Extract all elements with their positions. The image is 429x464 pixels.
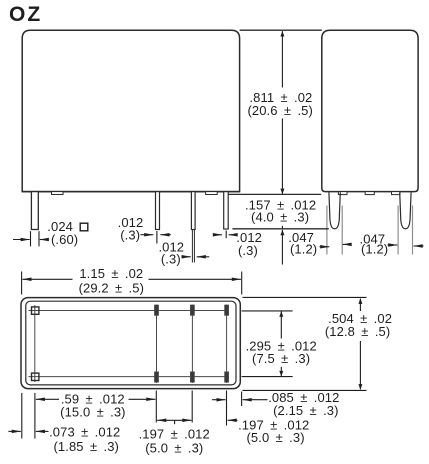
dimension .012 pin4 arrows: [213, 234, 222, 236]
front pin 4: [224, 192, 229, 229]
dimension .157 lower arrow: [281, 230, 283, 265]
svg-text:(5.0 ± .3): (5.0 ± .3): [247, 430, 305, 445]
front view bottom edge: [22, 191, 239, 193]
dimension .012 pin3 arrows: [182, 256, 191, 258]
bottom view inner outline: [26, 301, 236, 385]
front pin 1: [31, 192, 38, 230]
svg-text:(5.0 ± .3): (5.0 ± .3): [145, 440, 203, 455]
bottom view pin mark col3 bottom: [225, 372, 229, 383]
dimension .047 left pin arrow right: [343, 243, 351, 245]
extension line pin col2: [191, 391, 193, 423]
square symbol: [80, 223, 88, 231]
dimension .157 line stub above reference line: [281, 226, 283, 229]
front view tab left: [52, 192, 64, 195]
bottom view square pad top: [32, 307, 39, 314]
front pin 3: [191, 192, 195, 230]
svg-text:(.60): (.60): [51, 232, 78, 247]
side pin right: [400, 192, 411, 229]
svg-text:1.15 ± .02: 1.15 ± .02: [79, 266, 143, 281]
bottom view square pad bottom: [32, 373, 39, 380]
bottom view centerline column 2: [191, 305, 193, 384]
svg-text:(.3): (.3): [161, 252, 181, 267]
svg-text:.073 ± .012: .073 ± .012: [49, 425, 120, 440]
bottom view centerline left column: [34, 305, 36, 382]
svg-text:OZ: OZ: [9, 3, 42, 26]
dimension .012 pin4 tick: [225, 231, 227, 239]
front view tab right: [206, 192, 218, 195]
dimension .811 vertical line upper: [281, 31, 283, 87]
pin bottom reference line: [232, 228, 328, 230]
svg-text:(15.0 ± .3): (15.0 ± .3): [60, 404, 125, 419]
side pin left: [329, 192, 340, 229]
side view body: [322, 30, 418, 191]
dimension .073 left arrow: [8, 430, 20, 432]
svg-text:(1.2): (1.2): [290, 241, 317, 256]
extension line right edge: [241, 392, 243, 407]
dimension .811 vertical line lower: [281, 119, 283, 194]
svg-text:(20.6 ± .5): (20.6 ± .5): [247, 103, 312, 118]
dimension .197 left pair arrows: [157, 419, 191, 421]
dimension .504 extension top: [243, 296, 367, 298]
dimension .197 left leader stub: [174, 420, 176, 424]
bottom view pin mark col2 bottom: [190, 372, 194, 383]
bottom view outer outline: [21, 298, 240, 389]
dimension .012 pin2 tick: [156, 231, 158, 244]
bottom view pin mark col2 top: [190, 305, 194, 316]
svg-text:(1.85 ± .3): (1.85 ± .3): [54, 439, 119, 454]
svg-text:(2.15 ± .3): (2.15 ± .3): [273, 403, 338, 418]
dimension .085 left arrow: [212, 399, 226, 401]
svg-text:(.3): (.3): [238, 243, 258, 258]
side pin left extension lines: [326, 206, 328, 255]
bottom view centerline column 3: [226, 305, 228, 384]
side view tab 2: [365, 192, 374, 195]
dimension .085 right arrow: [243, 399, 268, 401]
front view body: [22, 30, 239, 191]
dimension .012 pin2 arrows: [141, 234, 154, 236]
bottom view centerline column 1: [156, 305, 158, 384]
dimension .295 extension bottom: [242, 376, 293, 378]
bottom view pin mark col1 bottom: [154, 372, 158, 383]
side pin right extension lines: [397, 206, 399, 255]
bottom view centerline top row: [29, 310, 228, 312]
top connector line between views: [240, 29, 322, 31]
dimension 1.15 tick right: [241, 272, 243, 295]
svg-text:(29.2 ± .5): (29.2 ± .5): [79, 280, 144, 295]
extension line left edge: [21, 393, 23, 439]
dimension .047 left arrow: [320, 246, 330, 248]
extension line square column: [34, 393, 36, 439]
bottom connector line between views: [228, 193, 321, 195]
dimension .295 extension top: [242, 310, 293, 312]
svg-text:(4.0 ± .3): (4.0 ± .3): [251, 210, 309, 225]
svg-text:.197 ± .012: .197 ± .012: [139, 427, 210, 442]
dimension .197 right arrow: [228, 419, 238, 421]
svg-text:(.3): (.3): [120, 228, 140, 243]
side view tab 1: [338, 192, 347, 195]
dimension .59 right arrow: [129, 398, 156, 400]
dimension .504 extension bottom: [243, 389, 367, 391]
dimension .504 line lower arrow: [359, 341, 361, 389]
svg-text:(12.8 ± .5): (12.8 ± .5): [325, 324, 390, 339]
bottom view pin mark col1 top: [154, 305, 158, 316]
dimension .047 right pin arrows: [388, 244, 398, 246]
dimension .073 right arrow: [36, 430, 49, 432]
front pin 2: [156, 192, 160, 230]
front pin 3 extension lines: [191, 230, 193, 263]
dimension 1.15 line right arrow: [149, 278, 241, 280]
side view tab 3: [392, 192, 401, 195]
dimension 1.15 line left arrow: [22, 278, 72, 280]
dimension .504 line upper arrow: [359, 299, 361, 311]
extension line pin col3: [226, 391, 228, 426]
bottom view centerline bottom row: [29, 376, 228, 378]
bottom view pin mark col3 top: [225, 305, 229, 316]
svg-text:(7.5 ± .3): (7.5 ± .3): [252, 351, 310, 366]
dimension .024 arrows: [13, 239, 30, 241]
dimension .295 line lower arrow: [280, 367, 282, 376]
svg-text:(1.2): (1.2): [361, 242, 388, 257]
dimension 1.15 tick left: [21, 272, 23, 295]
dimension .295 line upper arrow: [280, 312, 282, 339]
dimension .024 ticks: [30, 231, 32, 246]
dimension .59 left arrow: [36, 398, 59, 400]
extension line pin col1: [155, 391, 157, 423]
